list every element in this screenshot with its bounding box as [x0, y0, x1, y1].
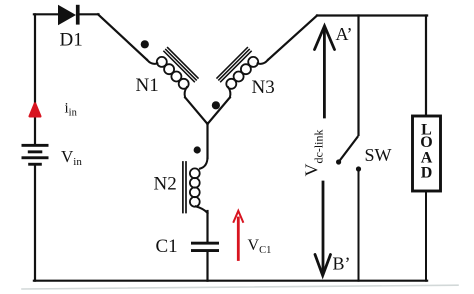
svg-text:Vin: Vin: [61, 147, 82, 168]
dot N1 (phase dot): [141, 40, 149, 48]
label Vdc-link (rotated): [302, 130, 326, 177]
svg-text:O: O: [420, 134, 432, 151]
wire right rail lower (LOAD to bottom rail): [425, 192, 427, 281]
wire N3 exit to center junction: [208, 97, 230, 124]
svg-text:SW: SW: [365, 145, 392, 165]
wire diagonal into N1: [98, 14, 147, 60]
label Vin: [61, 147, 82, 168]
wire bottom rail: [34, 280, 427, 282]
voltage arrow VC1 (red): [234, 211, 243, 260]
wire diode cathode to diagonal: [80, 13, 99, 15]
label LOAD letters: [420, 122, 432, 182]
node B' label: [333, 254, 351, 274]
current arrow iin (red): [30, 104, 40, 117]
switch SW lower terminal dot: [356, 166, 361, 171]
label N3: [252, 77, 275, 98]
svg-text:VC1: VC1: [248, 237, 272, 256]
label SW: [365, 145, 392, 165]
capacitor C1: [191, 242, 219, 252]
wire capacitor to bottom rail: [206, 253, 208, 281]
node A' label: [336, 24, 353, 44]
svg-text:N1: N1: [136, 75, 159, 96]
svg-text:D1: D1: [60, 30, 83, 51]
wire left rail lower (Vin bottom to bottom rail): [34, 165, 36, 281]
label D1: [60, 30, 83, 51]
svg-text:N3: N3: [252, 77, 275, 98]
dot N3 (phase dot): [212, 101, 220, 109]
wire right rail upper (to LOAD): [425, 16, 427, 117]
winding N1: [147, 48, 198, 98]
annotation arrow Vdc-link up (to node A'): [315, 26, 335, 117]
wire diagonal from top rail into N3: [268, 16, 317, 60]
winding N3: [217, 48, 268, 98]
switch SW blade: [339, 137, 358, 162]
switch SW blade dot: [336, 159, 341, 164]
wire left rail upper (Vin top to top-left corner): [34, 14, 36, 144]
scan artifact streak (faint): [22, 285, 458, 289]
svg-text:C1: C1: [156, 236, 178, 257]
svg-text:N2: N2: [154, 174, 177, 195]
diode D1: [58, 5, 80, 25]
svg-text:Vdc-link: Vdc-link: [302, 130, 326, 177]
wire switch branch lower: [358, 172, 360, 281]
svg-text:B’: B’: [333, 254, 351, 274]
wire N2 to capacitor: [206, 211, 208, 242]
label N2: [154, 174, 177, 195]
svg-text:iin: iin: [65, 101, 78, 119]
label N1: [136, 75, 159, 96]
label iin: [65, 101, 78, 119]
label VC1: [248, 237, 272, 256]
svg-text:A’: A’: [336, 24, 353, 44]
svg-text:D: D: [421, 165, 433, 182]
wire top-left horizontal (corner to diode anode): [34, 13, 58, 15]
wire center junction down to N2: [206, 123, 208, 158]
winding N2: [183, 157, 208, 213]
wire top rail: [317, 14, 427, 16]
label C1: [156, 236, 178, 257]
load box LOAD: [413, 116, 441, 191]
annotation arrow Vdc-link down (to node B'): [315, 182, 331, 276]
wire switch branch upper: [357, 16, 359, 136]
dot N2 (phase dot): [194, 146, 201, 153]
wire N1 exit to center junction: [185, 97, 207, 124]
battery Vin: [22, 144, 49, 166]
